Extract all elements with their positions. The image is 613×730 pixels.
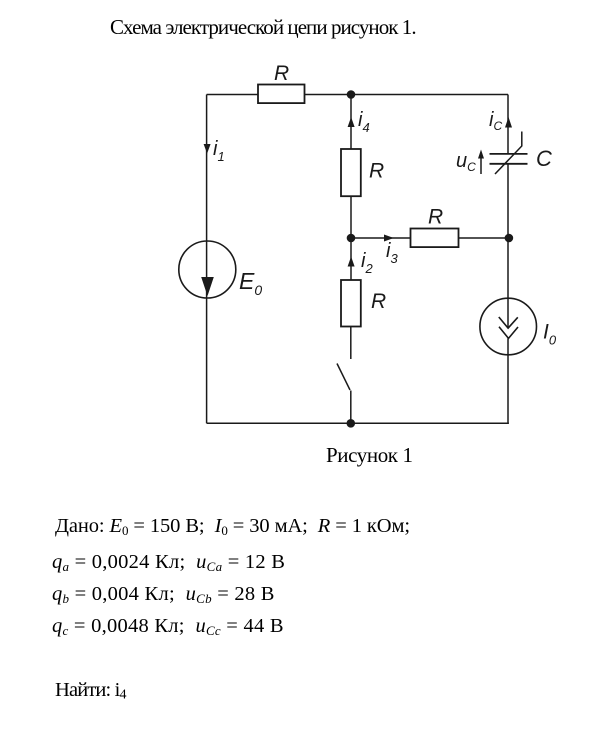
voltage source E0 arrow: [201, 277, 214, 296]
wire right lower: [507, 338, 509, 423]
current source I0 chevron 1: [499, 317, 518, 328]
given line 4: [52, 616, 284, 637]
node bottom: [347, 419, 356, 428]
resistor R1 top: [258, 85, 305, 104]
wire right mid: [507, 164, 509, 328]
current source I0 chevron 2: [499, 327, 518, 339]
node middle: [347, 234, 356, 243]
arrow i4 up: [348, 117, 355, 127]
wire switch to bottom node: [350, 391, 352, 424]
svg-text:R: R: [369, 160, 384, 183]
resistor R2 middle vertical: [341, 149, 361, 196]
svg-text:C: C: [536, 146, 552, 171]
arrow i1 down: [204, 144, 211, 154]
wire right upper: [507, 95, 509, 154]
given line 2: [52, 552, 285, 573]
svg-text:i2: i2: [361, 250, 373, 276]
wire bottom: [207, 422, 509, 424]
arrow iC up: [505, 117, 512, 128]
svg-text:i4: i4: [358, 109, 370, 135]
capacitor C plate top: [490, 153, 528, 155]
resistor R4 lower vertical: [341, 280, 361, 327]
wire left: [206, 95, 208, 424]
svg-text:iC: iC: [489, 109, 502, 133]
switch blade: [337, 364, 350, 391]
svg-text:R: R: [274, 62, 289, 85]
find line: [55, 680, 127, 703]
given line 1: [55, 516, 410, 537]
capacitor C plate bottom: [490, 163, 528, 165]
svg-text:i3: i3: [386, 240, 398, 266]
given line 3: [52, 584, 275, 605]
wire below lower resistor to switch: [350, 327, 352, 360]
voltage source E0 circle: [179, 241, 236, 298]
caption: [326, 445, 413, 466]
svg-text:uC: uC: [456, 150, 476, 174]
svg-text:i1: i1: [213, 138, 225, 164]
node middle right: [505, 234, 514, 243]
svg-text:R: R: [371, 290, 386, 313]
svg-text:R: R: [428, 206, 443, 229]
wire middle horizontal: [351, 237, 509, 239]
node top: [347, 90, 356, 99]
arrow i2 up: [348, 257, 355, 267]
svg-text:E0: E0: [239, 268, 262, 298]
arrow i3 right: [384, 235, 394, 242]
wire top: [207, 94, 508, 96]
resistor R3 horizontal: [411, 229, 459, 248]
wire middle branch between: [350, 196, 352, 280]
capacitor C variable diagonal: [495, 132, 522, 175]
arrow uC: [480, 153, 482, 174]
title: [110, 17, 416, 38]
current source I0 circle: [480, 298, 537, 355]
svg-text:I0: I0: [543, 321, 557, 348]
wire middle branch upper: [350, 95, 352, 150]
